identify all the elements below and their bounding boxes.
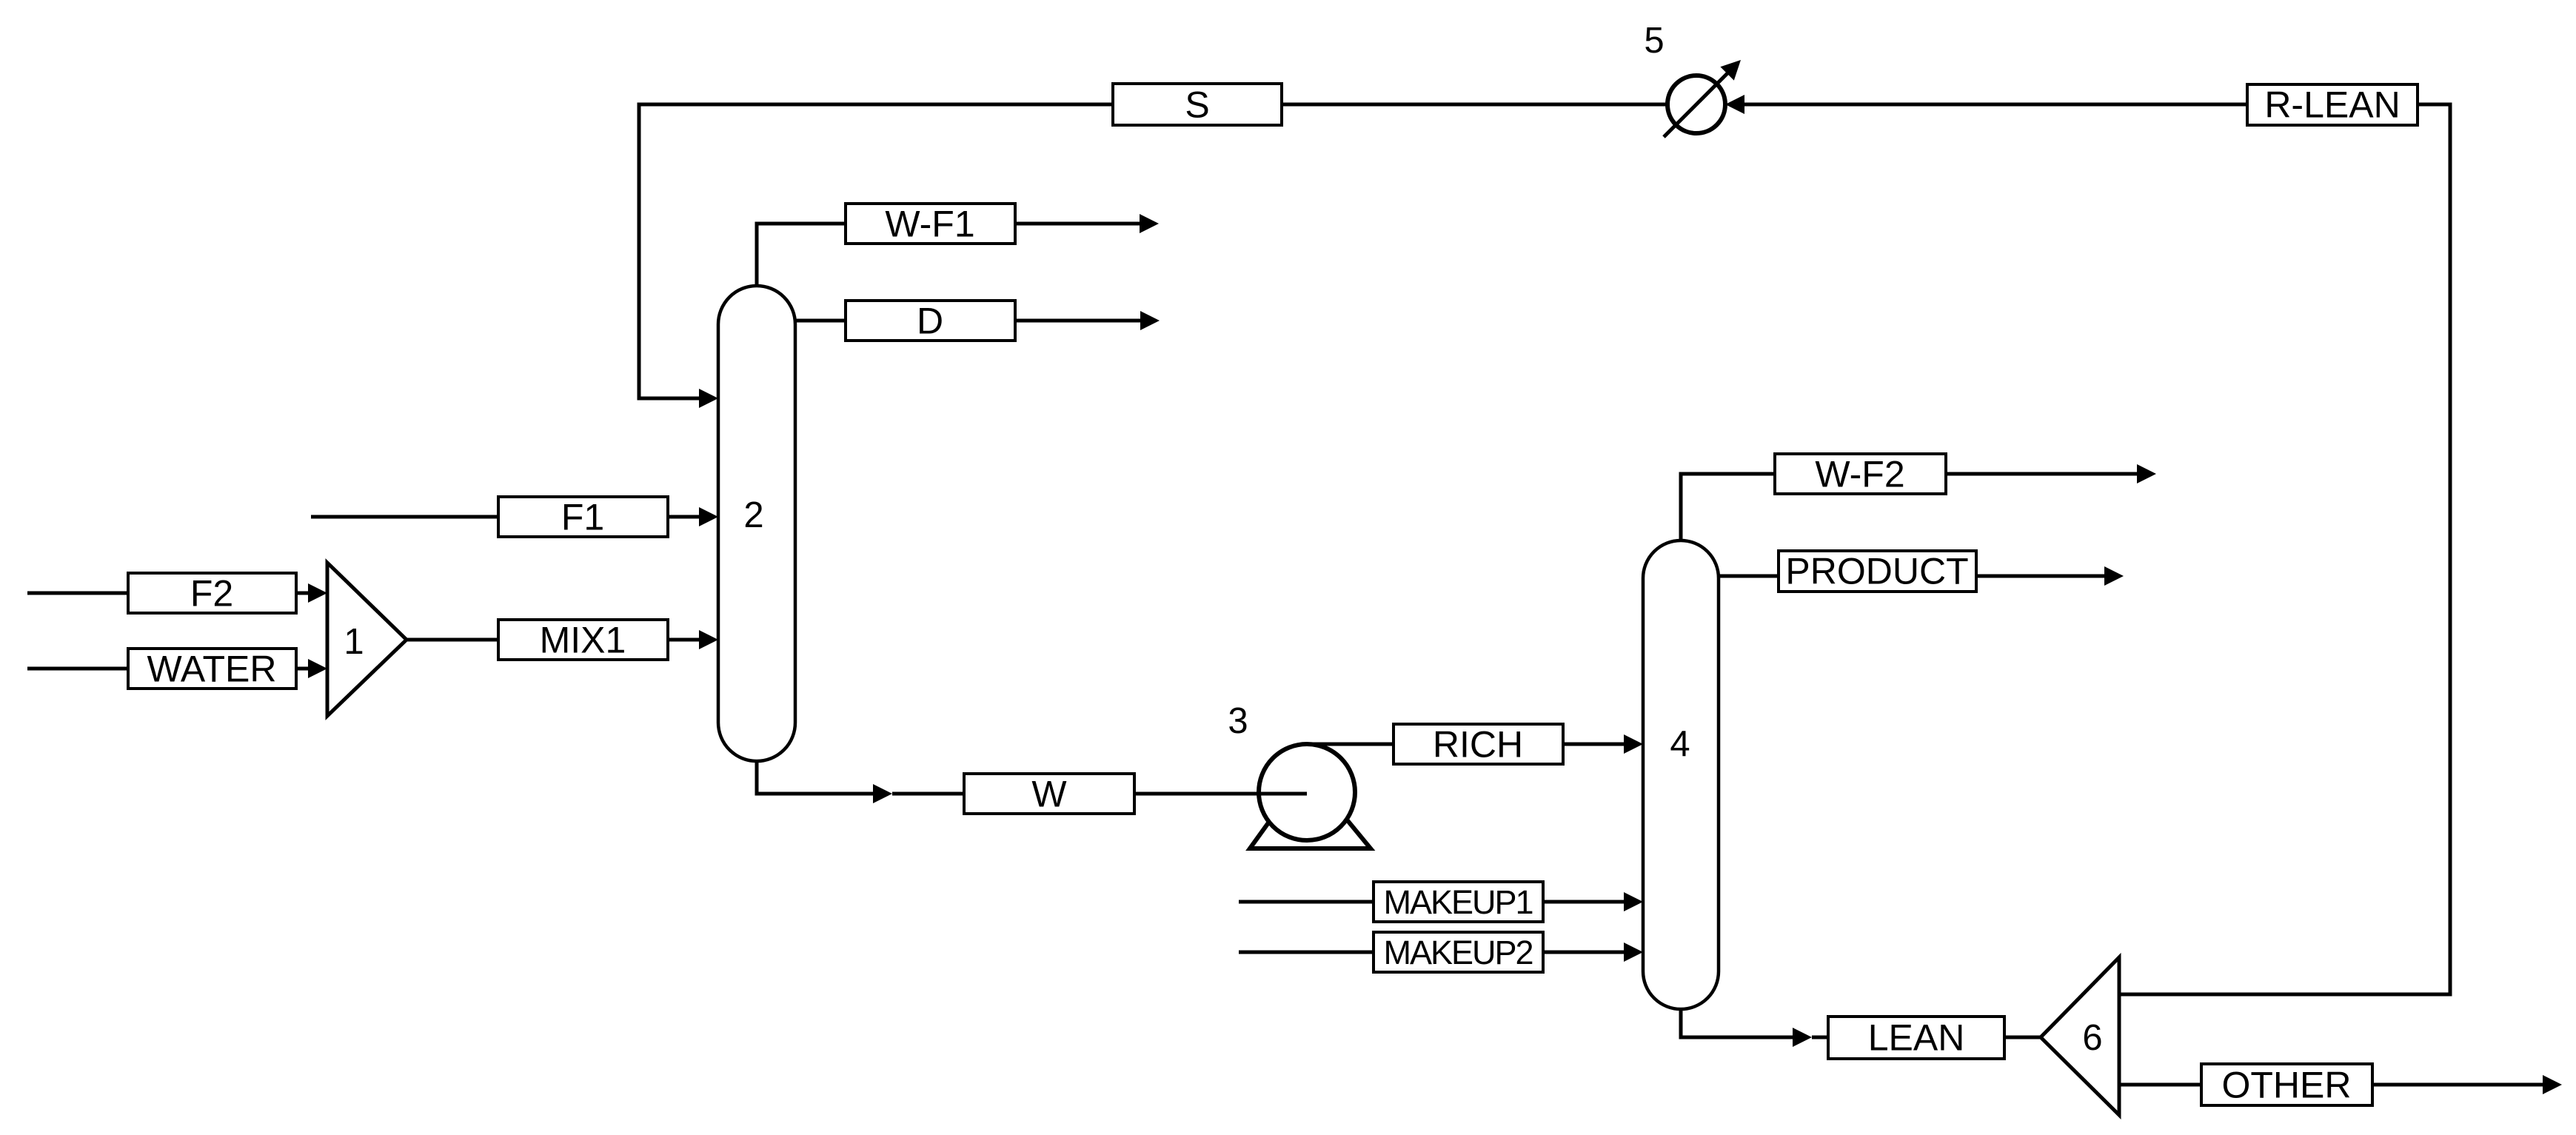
splitter 6 label (2082, 1018, 2102, 1058)
stream label F1 (498, 497, 668, 538)
stream label F2 (128, 573, 296, 615)
wire S recycle (valve to S box, then down into column 2) (639, 104, 1667, 398)
wire PRODUCT (column 4 side outlet) (1719, 575, 2106, 578)
stream label RICH (1394, 724, 1563, 766)
svg-text:R-LEAN: R-LEAN (2264, 84, 2400, 126)
wire W-F1 (column 2 top) (757, 224, 1141, 287)
wire F1 feed (311, 515, 702, 519)
arrowhead D outlet (1140, 311, 1160, 330)
valve 5 body (1667, 76, 1725, 133)
stream label MAKEUP2 (1374, 932, 1543, 972)
svg-text:W: W (1031, 774, 1067, 815)
valve 5 stem arrowhead (1720, 60, 1741, 81)
arrowhead into mixer (WATER) (308, 659, 327, 678)
svg-text:6: 6 (2082, 1018, 2102, 1058)
column 4 (1643, 540, 1719, 1009)
svg-text:MAKEUP2: MAKEUP2 (1383, 934, 1532, 971)
arrowhead mid-wire W (873, 784, 892, 803)
arrowhead into valve 5 (R-LEAN) (1725, 95, 1744, 114)
wire W-F2 (column 4 top) (1681, 474, 2138, 542)
pump 3 label (1228, 701, 1248, 741)
arrowhead PRODUCT outlet (2104, 566, 2124, 586)
stream label MIX1 (498, 620, 668, 661)
svg-text:LEAN: LEAN (1868, 1017, 1965, 1059)
svg-text:2: 2 (743, 495, 763, 535)
svg-text:1: 1 (344, 622, 364, 662)
svg-text:MAKEUP1: MAKEUP1 (1383, 883, 1532, 921)
svg-text:4: 4 (1670, 724, 1690, 764)
wire W (column 2 bottom to pump) (757, 760, 1259, 794)
svg-text:WATER: WATER (147, 649, 277, 690)
wire D (column 2 side outlet) (795, 319, 1142, 323)
splitter 6 (2041, 957, 2119, 1115)
stream label R-LEAN (2247, 84, 2418, 126)
svg-text:MIX1: MIX1 (540, 620, 626, 661)
svg-text:5: 5 (1644, 21, 1664, 61)
valve 5 label (1644, 21, 1664, 61)
arrowhead mid-wire LEAN (1793, 1028, 1812, 1047)
stream label D (846, 301, 1015, 342)
column 2 (718, 286, 795, 761)
arrowhead into column 4 (RICH) (1624, 734, 1643, 754)
column 4 label (1670, 724, 1690, 764)
wire R-LEAN recycle (splitter 6 up and left to valve 5) (1742, 104, 2450, 994)
wire F2 feed (27, 592, 311, 595)
wire LEAN (column 4 bottom to splitter 6) (1681, 1008, 2041, 1037)
mixer 1 label (344, 622, 364, 662)
arrowhead W-F1 outlet (1140, 214, 1159, 233)
pump 3 base (1250, 798, 1371, 848)
svg-text:S: S (1185, 84, 1209, 126)
arrowhead into column 2 (F1) (699, 507, 718, 526)
pump 3 body (1259, 744, 1355, 840)
svg-text:F1: F1 (561, 497, 604, 538)
svg-text:F2: F2 (190, 573, 233, 615)
mixer 1 (327, 563, 407, 716)
arrowhead into mixer (F2) (308, 583, 327, 603)
svg-text:3: 3 (1228, 701, 1248, 741)
stream label LEAN (1828, 1017, 2004, 1059)
wire MIX1 (mixer outlet to column 2) (407, 638, 702, 642)
column 2 label (743, 495, 763, 535)
wire MAKEUP2 feed (1239, 951, 1625, 954)
wire MAKEUP1 feed (1239, 900, 1625, 904)
wire OTHER (splitter 6 outlet) (2119, 1083, 2544, 1087)
stream label OTHER (2201, 1064, 2372, 1106)
arrowhead into column 2 (S) (699, 389, 718, 408)
svg-text:RICH: RICH (1433, 724, 1523, 766)
arrowhead into column 4 (MAKEUP2) (1624, 943, 1643, 962)
wire WATER feed (27, 667, 311, 671)
arrowhead OTHER outlet (2543, 1075, 2562, 1094)
stream label W-F1 (846, 204, 1015, 245)
arrowhead into column 4 (MAKEUP1) (1624, 892, 1643, 911)
stream label S (1113, 84, 1282, 126)
stream label MAKEUP1 (1374, 882, 1543, 922)
stream label PRODUCT (1779, 551, 1976, 592)
arrowhead W-F2 outlet (2137, 464, 2156, 483)
svg-text:W-F1: W-F1 (885, 204, 974, 245)
svg-text:W-F2: W-F2 (1815, 454, 1904, 495)
valve 5 stem (1664, 70, 1730, 137)
arrowhead into column 2 (MIX1) (699, 630, 718, 649)
pump 3 inlet shaft (1259, 792, 1307, 796)
stream label W (964, 774, 1134, 815)
stream label WATER (128, 649, 296, 690)
stream label W-F2 (1775, 454, 1946, 495)
svg-text:PRODUCT: PRODUCT (1785, 551, 1968, 592)
svg-text:D: D (917, 301, 943, 342)
wire RICH (pump outlet to column 4) (1307, 743, 1625, 746)
svg-text:OTHER: OTHER (2222, 1065, 2352, 1106)
